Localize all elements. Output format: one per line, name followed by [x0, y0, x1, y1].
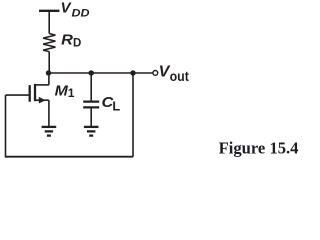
wire CL bottom to ground: [90, 107, 92, 126]
transistor M1: [6, 84, 49, 104]
svg-text:M: M: [55, 82, 69, 99]
terminal Vout open circle: [153, 71, 158, 76]
svg-text:R: R: [61, 31, 73, 48]
svg-text:out: out: [170, 68, 190, 84]
M1 source arrow: [39, 97, 46, 104]
junction dot feedback node: [130, 70, 135, 75]
ground at M1 source: [42, 127, 57, 136]
M1 drain lead: [35, 84, 49, 86]
wire resistor RD to drain node: [48, 52, 50, 73]
wire VDD bar to resistor RD: [48, 11, 50, 34]
ground at CL: [84, 127, 99, 136]
M1 source lead: [35, 99, 49, 101]
wire output node horizontal: [49, 72, 153, 74]
resistor RD zigzag: [43, 34, 55, 52]
wire feedback right vertical: [132, 73, 134, 157]
junction dot drain node: [46, 70, 51, 75]
power VDD bar: [39, 10, 59, 12]
M1 channel bar: [34, 84, 36, 101]
wire feedback bottom horizontal: [6, 156, 134, 158]
M1 gate lead: [6, 94, 29, 96]
svg-text:Figure 15.4: Figure 15.4: [219, 139, 299, 158]
svg-text:L: L: [112, 99, 120, 114]
svg-text:DD: DD: [72, 7, 90, 19]
wire CL top: [90, 73, 92, 101]
capacitor CL: [83, 102, 99, 108]
svg-text:1: 1: [68, 86, 75, 100]
wire M1 source to ground: [48, 100, 50, 126]
M1 gate bar: [29, 85, 31, 102]
wire feedback left vertical: [5, 95, 7, 157]
wire M1 drain vertical: [48, 73, 50, 85]
junction dot CL node: [89, 70, 94, 75]
svg-text:D: D: [73, 38, 81, 50]
